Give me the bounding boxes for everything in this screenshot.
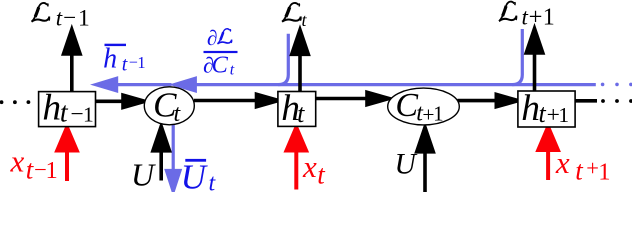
svg-text:t: t bbox=[297, 99, 305, 128]
node h_t box bbox=[278, 88, 316, 129]
svg-text:U: U bbox=[395, 149, 418, 181]
svg-text:1: 1 bbox=[598, 159, 610, 186]
svg-text:x: x bbox=[555, 145, 570, 180]
node: blue ellipsis right bbox=[601, 83, 632, 87]
wire: h_t -> C_{t+1} bbox=[316, 97, 368, 101]
node C_t ellipse bbox=[144, 85, 194, 127]
wire: h_{t-1} -> C_t bbox=[96, 100, 125, 104]
node: black ellipsis right bbox=[601, 99, 632, 103]
arrowhead hbar_{t-1} bbox=[96, 78, 117, 91]
wire: C_{t+1} -> h_{t+1} bbox=[458, 99, 498, 103]
diagram: RNN backpropagation-through-time bbox=[0, 0, 632, 192]
svg-text:U: U bbox=[181, 157, 209, 192]
wire: loss arrow from h_{t-1} bbox=[70, 52, 74, 92]
wire: blue drop from L_t bbox=[278, 34, 288, 85]
wire: blue down arrow Ubar_t from C_t bbox=[172, 125, 175, 173]
svg-text:t: t bbox=[60, 98, 69, 129]
svg-text:h: h bbox=[103, 43, 117, 74]
wire: loss arrow from h_{t+1} bbox=[533, 51, 537, 91]
svg-text:h: h bbox=[521, 88, 540, 129]
svg-text:−: − bbox=[71, 102, 84, 128]
wire: h_{t+1} -> right dots bbox=[575, 99, 597, 103]
label Ubar_t (blue) bbox=[181, 157, 217, 196]
svg-text:t: t bbox=[230, 61, 235, 78]
svg-text:1: 1 bbox=[433, 102, 444, 126]
node h_{t+1} box bbox=[518, 88, 575, 129]
node C_{t+1} ellipse bbox=[388, 87, 460, 127]
svg-text:t: t bbox=[522, 4, 529, 29]
label L_t bbox=[282, 3, 307, 30]
wire: x_{t+1} arrow bbox=[546, 149, 550, 180]
svg-text:t: t bbox=[122, 53, 128, 75]
svg-text:+: + bbox=[529, 3, 543, 30]
label L_{t-1} bbox=[32, 3, 90, 32]
wire: U input arrow to C_{t+1} bbox=[423, 150, 427, 192]
wire: x_t arrow bbox=[294, 149, 298, 190]
label x_t (red) bbox=[302, 149, 326, 190]
label hbar_{t-1} (blue) bbox=[103, 43, 146, 75]
wire: loss arrow from h_t bbox=[298, 52, 302, 92]
wire: x_{t-1} arrow bbox=[65, 149, 69, 181]
label dL/dC_t fraction (blue) bbox=[203, 26, 238, 79]
arrowhead dL/dCt bbox=[174, 78, 195, 91]
svg-text:1: 1 bbox=[46, 157, 58, 184]
svg-text:1: 1 bbox=[78, 6, 90, 32]
label x_{t+1} (red) bbox=[555, 145, 611, 186]
svg-text:C: C bbox=[212, 52, 229, 79]
svg-text:−: − bbox=[63, 5, 76, 30]
svg-text:U: U bbox=[131, 157, 156, 193]
svg-text:1: 1 bbox=[543, 5, 555, 31]
label x_{t-1} (red) bbox=[10, 144, 58, 185]
wire: blue drop from L_{t+1} bbox=[512, 29, 522, 85]
wire: U input arrow to C_t bbox=[159, 148, 163, 181]
svg-text:+: + bbox=[586, 155, 599, 180]
node h_{t-1} box bbox=[39, 88, 96, 129]
svg-text:C: C bbox=[395, 87, 418, 124]
svg-text:h: h bbox=[42, 88, 61, 129]
svg-text:1: 1 bbox=[558, 103, 569, 127]
wire: hbar arrow line C_t -> h_{t-1} bbox=[114, 83, 172, 86]
wire: long blue horizontal gradient line bbox=[193, 83, 596, 86]
svg-text:1: 1 bbox=[137, 53, 145, 72]
svg-text:∂: ∂ bbox=[207, 26, 218, 50]
svg-text:1: 1 bbox=[83, 103, 94, 127]
node: black ellipsis left bbox=[0, 100, 30, 104]
svg-text:t: t bbox=[56, 5, 63, 30]
wire: C_t -> h_t bbox=[194, 99, 258, 103]
label L_{t+1} bbox=[499, 2, 555, 31]
svg-text:t: t bbox=[539, 99, 547, 128]
svg-text:x: x bbox=[10, 144, 25, 179]
svg-text:x: x bbox=[302, 149, 317, 184]
